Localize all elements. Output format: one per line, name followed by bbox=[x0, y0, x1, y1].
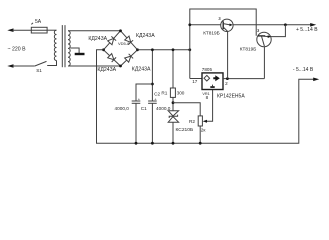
svg-text:КД243А: КД243А bbox=[88, 36, 107, 42]
svg-text:C2: C2 bbox=[154, 91, 160, 96]
regulator DA1 КР142ЕН5А box bbox=[202, 73, 223, 90]
svg-text:КС210Б: КС210Б bbox=[176, 127, 194, 133]
svg-text:S1: S1 bbox=[36, 68, 42, 73]
wire: junction to R2 top bbox=[173, 103, 200, 116]
node dot bridge bottom bbox=[119, 65, 122, 68]
capacitor C1 bbox=[132, 100, 141, 102]
transformer T1 secondary winding bbox=[68, 31, 70, 66]
node dot raw plus at VT1 base bbox=[188, 23, 191, 26]
svg-text:8: 8 bbox=[206, 95, 209, 100]
svg-text:КТ819Б: КТ819Б bbox=[203, 30, 220, 35]
transistor VT2 КТ819Б bbox=[257, 32, 271, 46]
svg-text:7805: 7805 bbox=[202, 67, 213, 72]
diode VD8 bottom-right bbox=[124, 54, 133, 63]
fuse designator tick bbox=[31, 23, 33, 25]
diode VD7 bottom-left bbox=[107, 53, 116, 62]
minus output arrow bbox=[313, 78, 319, 82]
wire: VT2 emitter to plus line bbox=[271, 25, 286, 37]
wire: secondary bottom lead to bridge bottom bbox=[68, 65, 121, 67]
node dot C1 branch bbox=[151, 83, 154, 86]
chassis ground bar bbox=[75, 53, 85, 55]
regulator arrow symbol bbox=[213, 75, 220, 81]
wire: secondary top lead to bridge top bbox=[68, 30, 121, 32]
wire: plus rail from bridge right corner bbox=[138, 49, 190, 51]
plus output arrow bbox=[310, 23, 316, 27]
svg-text:+ 5...14 В: + 5...14 В bbox=[296, 27, 318, 33]
svg-text:КД243А: КД243А bbox=[97, 67, 116, 73]
node dot bridge top bbox=[119, 29, 122, 32]
svg-text:~ 220 В: ~ 220 В bbox=[8, 46, 27, 52]
node dot C1 bottom bbox=[135, 142, 138, 145]
wire: regulator pin 8 to R2 wiper bbox=[206, 90, 213, 122]
switch S1 blade bbox=[35, 61, 47, 66]
wire: secondary center tap bbox=[70, 48, 79, 53]
svg-text:5А: 5А bbox=[35, 19, 42, 25]
zener VD9 КС210Б bbox=[168, 111, 178, 116]
node dot R1 top bbox=[172, 48, 175, 51]
svg-text:КД243А: КД243А bbox=[136, 33, 155, 39]
svg-text:4000,0: 4000,0 bbox=[115, 106, 130, 111]
regulator diamond symbol bbox=[204, 75, 210, 81]
wire: raw plus vertical to regulator input bbox=[190, 9, 256, 79]
resistor R1 300 bbox=[172, 50, 174, 88]
R2 wiper arrow bbox=[203, 120, 207, 123]
node dot bridge right bbox=[136, 48, 139, 51]
node dot R2 bottom bbox=[199, 142, 202, 145]
svg-text:R2: R2 bbox=[189, 119, 195, 124]
AC input arrow bottom bbox=[7, 64, 13, 68]
transformer core bbox=[61, 25, 63, 67]
svg-text:R1: R1 bbox=[161, 90, 167, 95]
svg-text:КД243А: КД243А bbox=[132, 67, 151, 73]
svg-text:2: 2 bbox=[225, 81, 228, 86]
wire: minus branch from bridge left corner down and along bottom rail bbox=[97, 50, 317, 143]
wire: C2 drop from plus rail bbox=[151, 50, 153, 101]
svg-text:17: 17 bbox=[192, 79, 198, 84]
diode VD5 top-left bbox=[107, 36, 116, 45]
wire: C1 branch bbox=[136, 84, 152, 101]
svg-text:VD5-8: VD5-8 bbox=[118, 41, 130, 46]
node dot C2 bottom bbox=[151, 142, 154, 145]
regulator bottom mark bbox=[212, 85, 214, 87]
node dot emitter junction bbox=[284, 23, 287, 26]
wire: plus output line bbox=[233, 24, 313, 26]
resistor R2 2к potentiometer bbox=[198, 116, 202, 126]
capacitor C2 bbox=[148, 100, 157, 102]
fuse 5А bbox=[31, 27, 47, 33]
svg-text:300: 300 bbox=[177, 90, 185, 95]
wire: VT2 bottom lead bbox=[263, 47, 265, 79]
node dot bridge left bbox=[102, 48, 105, 51]
transformer T1 primary winding bbox=[54, 30, 56, 60]
svg-text:КР142ЕН5А: КР142ЕН5А bbox=[217, 94, 245, 100]
wire: regulator output pin 2 bbox=[223, 78, 264, 80]
wire: switch to primary bottom bbox=[47, 61, 56, 66]
node dot C2 drop on plus rail bbox=[151, 48, 154, 51]
svg-text:4000,0: 4000,0 bbox=[156, 106, 171, 111]
node dot plus rail to regulator bbox=[188, 48, 191, 51]
node dot R1 bottom junction bbox=[172, 101, 175, 104]
wire: fuse to primary bbox=[47, 29, 56, 31]
wire: arrow to switch bbox=[13, 65, 35, 67]
svg-text:КТ819Б: КТ819Б bbox=[240, 46, 256, 51]
node dot zener bottom bbox=[172, 142, 175, 145]
wire: arrow to fuse bbox=[13, 29, 32, 31]
svg-text:- 5...14 В: - 5...14 В bbox=[293, 67, 314, 73]
wire: VT1 bottom lead bbox=[227, 31, 229, 78]
bridge diamond wires bbox=[104, 31, 138, 66]
diode VD6 top-right bbox=[124, 36, 133, 45]
AC input arrow top bbox=[7, 28, 13, 32]
node dot VT1 lead on output bbox=[226, 77, 229, 80]
transistor VT1 КТ819Б bbox=[190, 24, 223, 26]
svg-text:C1: C1 bbox=[141, 106, 147, 111]
